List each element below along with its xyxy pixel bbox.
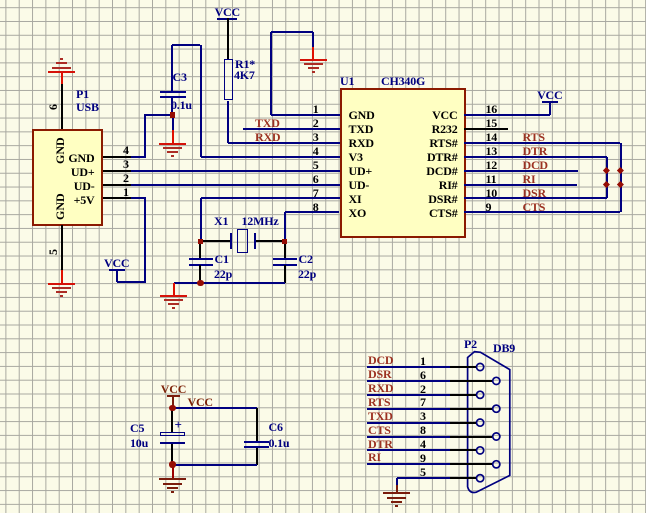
pin number 6 (199, 173, 319, 185)
pin number 10 (486, 187, 498, 199)
pin 15 stub (464, 128, 508, 130)
net label RTS (523, 131, 545, 143)
text R1* (235, 58, 255, 70)
wire (R1 bottom lead) (227, 101, 229, 143)
junction (617, 167, 624, 174)
pin number 5 (420, 466, 426, 478)
pin label GND (0, 152, 95, 164)
pin (450, 463, 492, 465)
wire (P1 pin 5) (61, 225, 63, 271)
capacitor C3 (160, 91, 186, 98)
text C3 (173, 71, 187, 83)
net label RTS (368, 396, 390, 408)
pin number 5 (47, 249, 59, 255)
pin (450, 380, 492, 382)
pin name RTS# (338, 137, 458, 149)
wire (174, 282, 285, 284)
wire (173, 283, 175, 295)
wire (DTR#) (464, 156, 607, 158)
text 0.1u (269, 437, 290, 449)
text 12MHz (242, 215, 279, 227)
wire (312, 47, 314, 59)
pin number 5 (199, 159, 319, 171)
text C1 (215, 253, 229, 265)
pin number 11 (486, 173, 497, 185)
ground (P1 pin 5) (48, 283, 75, 299)
wire (P2 pin 3) (367, 422, 450, 424)
text C6 (269, 421, 283, 433)
net label DSR (523, 187, 546, 199)
pin number 2 (199, 117, 319, 129)
text GND (rotated, bottom) (54, 193, 66, 220)
pin (450, 436, 492, 438)
wire (172, 465, 174, 479)
text GND (rotated, top) (54, 137, 66, 164)
pin number 6 (47, 104, 59, 110)
text P2 designator (464, 338, 477, 350)
pin number 4 (123, 144, 129, 156)
wire (CTS#) (464, 211, 621, 213)
pin number 1 (420, 355, 426, 367)
wire (200, 198, 202, 241)
wire (312, 32, 314, 47)
crystal X1 (230, 233, 232, 249)
pin number 7 (420, 396, 426, 408)
wire (620, 143, 622, 213)
capacitor C6 (244, 441, 269, 448)
junction (197, 280, 203, 286)
pin number 16 (486, 103, 498, 115)
wire (200, 45, 202, 157)
wire (C3 top lead) (171, 45, 173, 91)
net label CTS (523, 201, 546, 213)
wire (117, 281, 146, 283)
wire (P2 pin 6) (367, 380, 450, 382)
wire (61, 270, 63, 283)
connector P2 DB9 body (461, 345, 521, 505)
wire (173, 407, 257, 409)
wire (144, 114, 173, 116)
wire (144, 198, 146, 282)
wire (RXD) (228, 142, 340, 144)
pin number 13 (486, 145, 498, 157)
text 0.1u (171, 99, 192, 111)
ground (U1 GND) (300, 59, 327, 75)
wire (V3) (201, 156, 340, 158)
wire (256, 240, 285, 242)
text USB (76, 101, 99, 113)
wire (C5 bottom lead) (171, 444, 173, 465)
junction (C3/GND node) (170, 112, 176, 118)
ground (C3) (159, 143, 186, 159)
ground (crystal) (160, 295, 187, 311)
wire (P2 pin 2) (367, 394, 450, 396)
pin name DSR# (338, 193, 458, 205)
pin label UD- (0, 180, 95, 192)
wire (271, 31, 314, 33)
pin name DTR# (338, 151, 458, 163)
pin (450, 408, 492, 410)
pin label +5V (0, 194, 95, 206)
wire (TXD) (243, 128, 340, 130)
wire (C2 bottom lead) (284, 265, 286, 283)
wire (RTS#) (464, 142, 621, 144)
wire (DCD#) (464, 170, 578, 172)
wire (173, 464, 257, 466)
wire (UD+) (131, 170, 340, 172)
wire (C5 top lead) (171, 409, 173, 432)
pin name CTS# (338, 207, 458, 219)
text DB9 (493, 342, 515, 354)
wire (XI) (201, 197, 340, 199)
net label DSR (368, 368, 391, 380)
text 22p (214, 268, 232, 280)
wire (172, 130, 174, 143)
pin (450, 366, 476, 368)
pin number 8 (199, 201, 319, 213)
wire (284, 212, 286, 241)
pin number 12 (486, 159, 498, 171)
pin name R232 (338, 123, 458, 135)
wire (DSR#) (464, 197, 607, 199)
pin name GND (349, 109, 375, 121)
pin name TXD (349, 123, 374, 135)
pin number 6 (420, 369, 426, 381)
text 10u (130, 437, 148, 449)
pin number 8 (420, 424, 426, 436)
junction (XO node) (282, 239, 288, 245)
text 4K7 (234, 69, 255, 81)
net label DTR (368, 438, 393, 450)
wire (RI#) (464, 184, 578, 186)
wire (606, 157, 608, 199)
pin number 7 (199, 187, 319, 199)
wire (172, 117, 174, 130)
net label DTR (523, 145, 548, 157)
capacitor C1 (189, 258, 213, 266)
ground (P1 pin 6) (48, 57, 75, 73)
pin number 4 (199, 145, 319, 157)
wire (270, 32, 272, 115)
text C5 (130, 422, 144, 434)
wire (U1 GND) (271, 114, 340, 116)
wire (C1 bottom lead) (199, 265, 201, 283)
net label RI (523, 173, 536, 185)
wire (396, 485, 398, 492)
pin name DCD# (338, 165, 458, 177)
pin (450, 422, 476, 424)
wire (144, 115, 146, 157)
wire (P1 pin 6) (61, 84, 63, 129)
text CH340G (381, 75, 425, 87)
wire (C6 top lead) (256, 408, 258, 441)
net label TXD (255, 117, 280, 129)
pin P1.1 (103, 197, 131, 199)
pin P1.3 (103, 170, 131, 172)
pin number 9 (420, 452, 426, 464)
power VCC (maroon) (165, 383, 181, 397)
wire (116, 269, 118, 282)
net label RI (368, 451, 381, 463)
text X1 (214, 215, 228, 227)
pin name VCC (338, 109, 458, 121)
pin number 3 (199, 131, 319, 143)
pin number 2 (123, 172, 129, 184)
text 22p (298, 268, 316, 280)
pin name RI# (338, 179, 458, 191)
wire (172, 44, 200, 46)
junction (169, 405, 175, 411)
junction (603, 181, 610, 188)
capacitor C5 (160, 432, 185, 436)
net label VCC (188, 396, 213, 408)
junction (603, 167, 610, 174)
wire (227, 18, 229, 59)
pin number 3 (123, 158, 129, 170)
wire (C1 top lead) (199, 241, 201, 258)
pin name XO (349, 207, 367, 219)
wire (VCC pin16) (464, 114, 550, 116)
pin number 1 (199, 103, 319, 115)
wire (396, 478, 398, 485)
capacitor C2 (273, 258, 297, 266)
wire (P2 pin 9) (367, 463, 450, 465)
junction (XI node) (198, 239, 204, 245)
pin number 9 (486, 201, 492, 213)
net label TXD (368, 410, 393, 422)
pin number 4 (420, 438, 426, 450)
pin number 1 (123, 186, 129, 198)
pin (450, 449, 476, 451)
IC U1 body (340, 88, 466, 238)
power VCC (P1) (109, 257, 125, 271)
wire (61, 73, 63, 84)
junction (617, 181, 624, 188)
pin P1.2 (103, 184, 131, 186)
wire (UD-) (131, 184, 340, 186)
pin name RXD (349, 137, 374, 149)
wire (C6 bottom lead) (256, 448, 258, 465)
net label DCD (523, 159, 548, 171)
pin number 15 (486, 117, 498, 129)
pin name XI (349, 193, 362, 205)
wire (P2 pin 4) (367, 449, 450, 451)
pin number 2 (420, 383, 426, 395)
ground (C5) (159, 478, 186, 496)
wire (131, 197, 146, 199)
net label RXD (368, 382, 393, 394)
power VCC (top) (217, 6, 237, 20)
net label DCD (368, 354, 393, 366)
wire (P2 pin 8) (367, 436, 450, 438)
pin number 14 (486, 131, 498, 143)
pin (450, 477, 476, 479)
ground (P2 pin 5) (383, 492, 410, 510)
net label CTS (368, 424, 391, 436)
resistor R1 (224, 59, 234, 100)
connector P1 (32, 129, 103, 227)
pin name V3 (349, 151, 363, 163)
text P1 designator (76, 88, 89, 100)
wire (172, 397, 174, 408)
text C2 (299, 253, 313, 265)
wire (XO) (285, 211, 340, 213)
pin (450, 394, 476, 396)
wire (549, 101, 551, 115)
wire (P2 pin 7) (367, 408, 450, 410)
pin label UD+ (0, 166, 95, 178)
wire (C3 bottom lead) (171, 98, 173, 114)
text U1 designator (340, 75, 354, 87)
power VCC (right) (542, 89, 558, 103)
wire (C2 top lead) (284, 241, 286, 258)
junction (169, 461, 175, 467)
pin P1.4 (103, 156, 131, 158)
pin name UD+ (349, 165, 373, 177)
wire (P2 pin 1) (367, 366, 450, 368)
net label RXD (255, 131, 280, 143)
wire (131, 156, 146, 158)
wire (P2 pin 5) (397, 477, 450, 479)
wire (201, 240, 232, 242)
pin number 3 (420, 410, 426, 422)
pin name UD- (349, 179, 370, 191)
